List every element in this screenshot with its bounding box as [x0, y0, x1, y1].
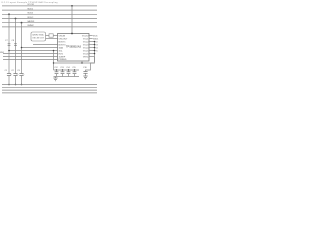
component series small box: [49, 34, 53, 37]
capacitor marks left vert 2: [14, 43, 17, 45]
rail VDD2: [2, 13, 97, 15]
node cap1 gnd: [8, 84, 10, 86]
gnd rail 3: [2, 89, 97, 91]
capacitor C3: [19, 73, 23, 75]
svg-text:TPS65910A3: TPS65910A3: [66, 45, 81, 48]
rail VMMC: [2, 26, 97, 28]
wire osc to comp: [46, 35, 50, 37]
right bus vertical: [94, 42, 96, 63]
wire osc lower to IC: [46, 38, 58, 40]
wire long bottom: [54, 62, 95, 64]
svg-text:VDDC: VDDC: [27, 17, 34, 19]
svg-text:VDD1: VDD1: [27, 8, 34, 10]
wire VCC to IC top: [71, 6, 73, 34]
wire comp to IC: [53, 35, 57, 37]
wire caps bottom bus: [54, 76, 80, 78]
wire pin line A: [9, 50, 58, 52]
node tap rail3: [8, 13, 10, 15]
IC right pin names: [82, 35, 89, 58]
node long bottom joint: [53, 62, 54, 63]
block OSC box: [31, 32, 46, 41]
svg-text:SLEEP: SLEEP: [59, 56, 66, 58]
svg-text:VCCIO: VCCIO: [82, 35, 89, 37]
svg-text:BOOT1: BOOT1: [59, 41, 67, 43]
svg-text:SDA: SDA: [59, 46, 64, 49]
IC bottom pin stub: [81, 61, 83, 63]
wire pin line E: [33, 44, 58, 46]
node tap rail4: [15, 18, 17, 20]
wire pin line B: [3, 53, 58, 55]
wire VBAT vertical: [53, 51, 55, 71]
node cap3 gnd: [21, 84, 23, 86]
wire caps top bus: [54, 69, 80, 71]
wire pin line F: [3, 59, 58, 61]
svg-text:VCC4: VCC4: [83, 47, 89, 49]
capacitor C2: [13, 73, 17, 75]
wire right elbow: [86, 57, 95, 72]
IC top pin node: [71, 33, 73, 35]
svg-text:VCCIO: VCCIO: [27, 4, 34, 6]
svg-text:VMMC: VMMC: [27, 25, 34, 27]
IC U1 TPS65910: [58, 34, 90, 62]
wire vertical left 2: [15, 19, 17, 74]
wire vertical left 3: [21, 23, 23, 74]
pin stub r3: [89, 41, 95, 43]
svg-text:BOOT0: BOOT0: [59, 44, 67, 46]
pin stub r6: [89, 50, 95, 52]
svg-text:32KHZ XTAL: 32KHZ XTAL: [32, 34, 45, 37]
rail VDD3: [2, 18, 97, 20]
capacitor C1: [7, 73, 11, 75]
svg-text:VCC2: VCC2: [83, 41, 89, 43]
node cap2 gnd: [15, 84, 17, 86]
wire vertical left 1: [8, 14, 10, 73]
svg-text:1u: 1u: [16, 74, 18, 76]
svg-text:V2: V2: [95, 41, 97, 43]
capacitor C13: [62, 69, 63, 70]
capacitor C12: [56, 69, 57, 70]
svg-text:1u: 1u: [22, 74, 24, 76]
svg-text:V4: V4: [95, 47, 97, 49]
wire pin line C: [3, 56, 58, 58]
pin stub r7: [89, 53, 95, 55]
ground center: [55, 77, 57, 79]
svg-text:VDD2: VDD2: [27, 13, 34, 15]
ground right: [83, 75, 87, 77]
svg-text:OSC IN OUT: OSC IN OUT: [32, 38, 44, 40]
svg-text:OSCOUT: OSCOUT: [59, 38, 69, 40]
node tap rail1: [71, 5, 73, 7]
IC left pin names: [59, 35, 69, 61]
rail VDD1: [2, 9, 97, 11]
svg-text:VIO1: VIO1: [93, 35, 99, 37]
svg-text:C15: C15: [72, 67, 75, 69]
rail VAUX: [2, 22, 97, 24]
pin stub r4: [89, 44, 95, 46]
capacitor C16: [83, 71, 87, 73]
rail VIO: [2, 5, 97, 7]
svg-text:VCC6: VCC6: [83, 53, 89, 55]
capacitor marks left vert 1: [8, 43, 11, 45]
wire pin line D: [22, 47, 58, 49]
svg-text:VAUX3: VAUX3: [27, 20, 35, 23]
node dot A: [8, 50, 10, 52]
svg-text:VCC1: VCC1: [83, 38, 89, 40]
pin stub r2: [89, 38, 93, 40]
svg-text:C13: C13: [60, 67, 63, 69]
svg-text:1u: 1u: [10, 74, 12, 76]
sheet background: [0, 0, 100, 100]
gnd rail 4: [2, 92, 97, 94]
pin stub r5: [89, 47, 95, 49]
pin stub r1: [89, 35, 93, 37]
capacitor C14: [68, 69, 69, 70]
svg-text:VCC3: VCC3: [83, 44, 89, 46]
node dot D: [21, 47, 23, 49]
svg-text:V3: V3: [95, 44, 97, 46]
svg-text:VRTC: VRTC: [83, 56, 89, 58]
capacitor C15: [74, 69, 75, 70]
svg-text:V5: V5: [95, 50, 97, 52]
node tap rail5: [21, 22, 23, 24]
gnd rail 1: [2, 84, 97, 86]
pin stub r8: [89, 56, 95, 58]
svg-text:OSCIN: OSCIN: [59, 35, 66, 37]
svg-text:C14: C14: [66, 67, 69, 69]
svg-text:PWRHD: PWRHD: [59, 59, 67, 61]
svg-text:VCC5: VCC5: [83, 50, 89, 52]
node VBAT tap: [53, 50, 55, 52]
svg-text:VDD1: VDD1: [93, 38, 99, 40]
gnd rail 2: [2, 86, 97, 88]
svg-text:C12: C12: [54, 67, 57, 69]
